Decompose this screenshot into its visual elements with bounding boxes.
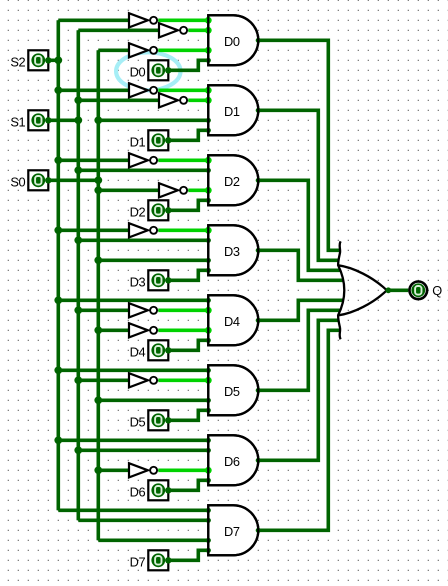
svg-text:D6: D6: [130, 485, 146, 500]
svg-text:D4: D4: [224, 314, 240, 329]
svg-text:D2: D2: [130, 205, 146, 220]
svg-text:D1: D1: [130, 135, 146, 150]
svg-text:D2: D2: [224, 174, 240, 189]
svg-text:D5: D5: [130, 415, 146, 430]
svg-text:Q: Q: [432, 283, 442, 298]
svg-text:D1: D1: [224, 104, 240, 119]
svg-text:D7: D7: [130, 555, 146, 570]
svg-text:D3: D3: [130, 275, 146, 290]
svg-text:D3: D3: [224, 244, 240, 259]
svg-text:S0: S0: [10, 175, 25, 190]
svg-text:S2: S2: [10, 55, 25, 70]
svg-text:D4: D4: [130, 345, 146, 360]
svg-text:D0: D0: [224, 34, 240, 49]
svg-text:D6: D6: [224, 454, 240, 469]
svg-text:D5: D5: [224, 384, 240, 399]
svg-text:D7: D7: [224, 524, 240, 539]
svg-text:D0: D0: [130, 65, 146, 80]
svg-text:S1: S1: [10, 115, 25, 130]
